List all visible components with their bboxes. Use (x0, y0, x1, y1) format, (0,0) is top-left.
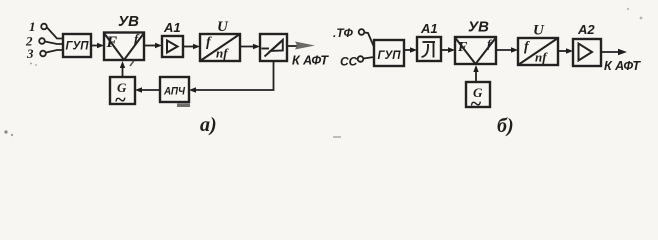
svg-text:АПЧ: АПЧ (163, 86, 185, 98)
svg-text:.ТФ: .ТФ (333, 26, 354, 40)
svg-text:F: F (457, 40, 468, 55)
svg-text:А1: А1 (420, 21, 438, 36)
svg-text:U: U (217, 19, 229, 35)
svg-text:nf: nf (535, 50, 548, 65)
svg-text:F: F (106, 34, 118, 51)
svg-text:б): б) (497, 115, 514, 137)
svg-text:1: 1 (29, 19, 36, 34)
svg-text:СС: СС (340, 55, 358, 69)
svg-text:ГУП: ГУП (378, 48, 401, 62)
svg-text:К АФТ: К АФТ (604, 58, 641, 73)
svg-text:U: U (533, 23, 545, 39)
svg-text:УВ: УВ (468, 19, 489, 36)
svg-text:~: ~ (115, 89, 126, 111)
svg-text:А2: А2 (577, 22, 595, 37)
svg-text:А1: А1 (163, 20, 181, 35)
svg-text:nf: nf (216, 46, 229, 61)
svg-text:УВ: УВ (118, 13, 139, 30)
svg-text:а): а) (200, 114, 217, 136)
svg-text:ГУП: ГУП (66, 39, 89, 53)
svg-text:~: ~ (470, 93, 481, 115)
svg-text:3: 3 (26, 46, 34, 61)
svg-text:К АФТ: К АФТ (292, 53, 329, 68)
